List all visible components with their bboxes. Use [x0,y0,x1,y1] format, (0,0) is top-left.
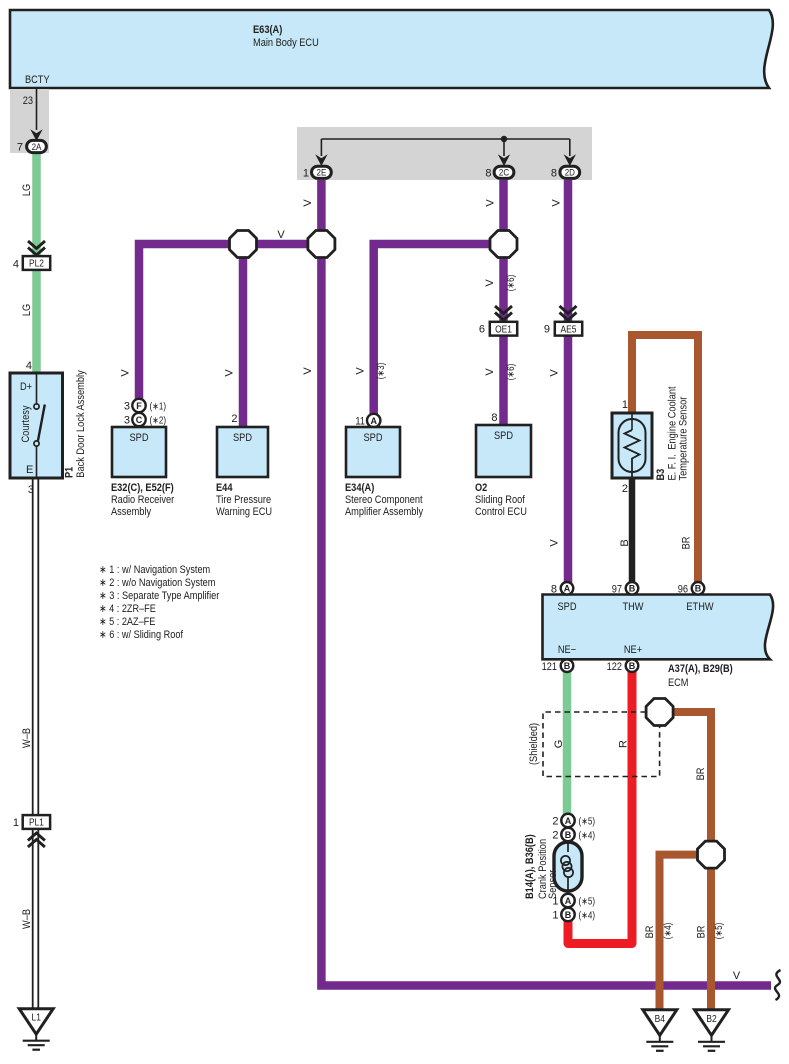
svg-text:8: 8 [551,168,557,180]
svg-text:Radio Receiver: Radio Receiver [111,494,174,506]
svg-text:97: 97 [612,584,622,596]
svg-text:B: B [565,830,572,840]
svg-text:LG: LG [21,304,33,316]
svg-text:∗ 2 : w/o Navigation System: ∗ 2 : w/o Navigation System [99,577,215,589]
svg-text:Control ECU: Control ECU [475,506,527,518]
svg-text:E63(A): E63(A) [253,24,283,36]
svg-text:Tire Pressure: Tire Pressure [216,494,271,506]
svg-text:121: 121 [542,661,557,673]
svg-text:B14(A), B36(B): B14(A), B36(B) [524,834,536,899]
svg-text:SPD: SPD [364,432,383,444]
svg-text:V: V [551,199,563,207]
svg-text:96: 96 [678,584,688,596]
svg-text:Back Door Lock Assembly: Back Door Lock Assembly [75,370,87,478]
svg-text:(Shielded): (Shielded) [528,723,540,765]
svg-text:F: F [136,401,142,411]
svg-text:R: R [618,740,630,748]
svg-text:V: V [355,367,367,375]
svg-text:(∗6): (∗6) [506,275,517,292]
svg-text:W–B: W–B [21,728,33,748]
svg-text:SPD: SPD [233,432,252,444]
svg-text:(∗3): (∗3) [376,363,387,380]
svg-text:Sensor: Sensor [547,869,559,899]
svg-text:V: V [120,369,132,377]
svg-text:BR: BR [696,926,708,939]
svg-text:A: A [565,896,572,906]
svg-text:1: 1 [303,168,309,180]
svg-text:(∗5): (∗5) [579,817,596,828]
svg-text:V: V [733,970,741,982]
svg-text:1: 1 [13,817,19,829]
svg-text:∗ 3 : Separate Type Amplifier: ∗ 3 : Separate Type Amplifier [99,590,220,602]
svg-text:2A: 2A [32,142,42,153]
svg-text:BR: BR [681,537,693,550]
svg-text:V: V [302,199,314,207]
svg-text:ECM: ECM [668,677,689,689]
svg-text:ETHW: ETHW [686,601,714,613]
svg-text:4: 4 [26,360,32,372]
svg-text:V: V [484,368,496,376]
svg-text:L1: L1 [32,1013,42,1024]
svg-text:P1: P1 [64,467,76,478]
svg-text:BR: BR [644,926,656,939]
svg-text:6: 6 [479,324,485,336]
svg-text:LG: LG [21,184,33,196]
svg-text:8: 8 [491,412,497,424]
svg-text:2: 2 [622,483,628,495]
svg-text:O2: O2 [475,482,487,494]
svg-text:2: 2 [231,413,237,425]
svg-text:A: A [564,584,571,594]
svg-text:Courtesy: Courtesy [20,405,32,442]
svg-text:G: G [553,740,565,749]
svg-text:NE+: NE+ [624,644,642,656]
svg-text:8: 8 [551,584,557,596]
svg-text:Temperature Sensor: Temperature Sensor [678,396,690,480]
svg-text:122: 122 [607,661,622,673]
svg-text:V: V [484,279,496,287]
svg-text:V: V [302,367,314,375]
svg-text:(∗2): (∗2) [150,416,167,427]
svg-text:SPD: SPD [558,601,577,613]
svg-text:SPD: SPD [130,432,149,444]
svg-text:(∗5): (∗5) [579,897,596,908]
svg-text:AE5: AE5 [561,324,577,335]
svg-text:E34(A): E34(A) [345,482,375,494]
svg-text:2D: 2D [565,168,575,179]
svg-text:BR: BR [695,768,707,781]
svg-text:23: 23 [23,95,33,107]
svg-text:A37(A), B29(B): A37(A), B29(B) [668,663,733,675]
svg-text:∗ 1 : w/ Navigation System: ∗ 1 : w/ Navigation System [99,564,210,576]
svg-text:B: B [629,661,636,671]
svg-text:B: B [629,584,636,594]
svg-text:OE1: OE1 [495,324,512,335]
svg-text:V: V [277,229,285,241]
svg-text:8: 8 [485,168,491,180]
svg-text:Sliding Roof: Sliding Roof [475,494,526,506]
svg-text:BCTY: BCTY [25,74,50,86]
svg-text:B2: B2 [706,1014,717,1025]
svg-text:(∗5): (∗5) [714,923,725,940]
svg-text:(∗4): (∗4) [579,831,596,842]
svg-text:3: 3 [28,484,34,496]
svg-text:E: E [26,464,33,476]
svg-text:Main Body ECU: Main Body ECU [253,37,319,49]
svg-text:B: B [695,584,702,594]
svg-text:B: B [565,910,572,920]
svg-text:A: A [565,816,572,826]
svg-text:V: V [549,539,561,547]
svg-text:3: 3 [124,401,130,413]
svg-text:3: 3 [124,415,130,427]
svg-text:Stereo Component: Stereo Component [345,494,423,506]
svg-text:SPD: SPD [494,430,513,442]
svg-text:B: B [564,661,571,671]
svg-text:A: A [370,416,377,426]
svg-text:(∗6): (∗6) [506,364,517,381]
svg-text:W–B: W–B [21,909,33,929]
svg-text:V: V [549,369,561,377]
svg-text:V: V [224,369,236,377]
svg-text:∗ 4 : 2ZR–FE: ∗ 4 : 2ZR–FE [99,603,156,615]
svg-text:B: B [619,539,631,546]
svg-text:(∗4): (∗4) [663,923,674,940]
svg-text:B4: B4 [655,1014,666,1025]
svg-text:PL2: PL2 [29,259,44,270]
svg-text:2C: 2C [499,168,509,179]
svg-text:2: 2 [552,816,558,828]
svg-text:Assembly: Assembly [111,506,152,518]
svg-text:(∗4): (∗4) [579,911,596,922]
svg-text:7: 7 [17,142,23,154]
svg-text:∗ 5 : 2AZ–FE: ∗ 5 : 2AZ–FE [99,616,155,628]
svg-text:9: 9 [544,324,550,336]
svg-text:C: C [136,415,143,425]
svg-text:1: 1 [622,399,628,411]
svg-text:1: 1 [552,910,558,922]
svg-text:(∗1): (∗1) [150,402,167,413]
svg-text:B3: B3 [655,469,667,481]
svg-text:2E: 2E [317,168,327,179]
svg-text:V: V [485,199,497,207]
svg-text:E44: E44 [216,482,233,494]
svg-text:4: 4 [13,259,19,271]
svg-text:2: 2 [552,830,558,842]
svg-text:THW: THW [623,601,645,613]
svg-text:E32(C), E52(F): E32(C), E52(F) [111,482,174,494]
svg-text:PL1: PL1 [29,818,44,829]
svg-text:NE−: NE− [558,644,576,656]
svg-text:∗ 6 : w/ Sliding Roof: ∗ 6 : w/ Sliding Roof [99,629,184,641]
svg-text:Amplifier Assembly: Amplifier Assembly [345,506,424,518]
svg-text:Warning ECU: Warning ECU [216,506,272,518]
svg-text:D+: D+ [20,381,32,393]
